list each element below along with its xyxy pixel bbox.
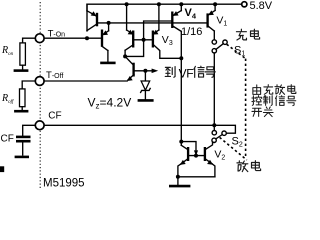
5.8V terminal (242, 2, 247, 7)
由 (253, 85, 261, 94)
ground (zener) (138, 99, 154, 102)
label control text block 由充放电 / 控制信号 / 开关 (253, 85, 261, 94)
开 (252, 108, 262, 116)
ground (bottom) (177, 177, 179, 185)
svg-text:M51995: M51995 (43, 178, 85, 190)
transistor V4 (1/16 PNP) (172, 4, 181, 141)
ground (Roff) (14, 110, 28, 113)
svg-text:VF: VF (179, 67, 194, 81)
电 (252, 161, 261, 171)
wire Qe base to arrow (134, 70, 153, 72)
充 (236, 29, 246, 40)
ground (CF cap) (15, 156, 29, 159)
svg-text:1/16: 1/16 (181, 26, 202, 38)
transistor Qc (mirror PNP left) (125, 4, 134, 56)
wire mirror base line (133, 39, 153, 41)
放 (275, 85, 285, 95)
zener diode Vz (141, 71, 151, 99)
wire common base line (Qa base to V1 base) (97, 22, 208, 24)
信 (194, 66, 204, 77)
号 (287, 96, 296, 105)
transistor Qb (PNP, base to T-On) (102, 23, 109, 62)
transistor V2 (discharge NPN) (205, 142, 215, 176)
svg-text:CF: CF (48, 111, 61, 122)
电 (251, 29, 260, 39)
wire S1 to CF node (213, 53, 215, 125)
wire mirror base line bottom (188, 155, 205, 157)
pin T-On (35, 34, 44, 43)
IC boundary dashed line (39, 2, 41, 189)
transistor Qf (diode-connected NPN) (178, 142, 188, 177)
pin T-Off (35, 77, 44, 86)
node Qe collector node dot (123, 54, 127, 58)
node T-On junction (85, 36, 89, 40)
node rail junction dots (125, 2, 129, 6)
node base-line dot (107, 21, 111, 25)
充 (264, 85, 273, 95)
transistor V1 (charge PNP) (208, 4, 216, 40)
关 (263, 107, 273, 117)
capacitor CF external (16, 125, 35, 155)
制 (263, 96, 272, 106)
ground (Qb collector) (100, 62, 115, 65)
label 到VF信号 (to VF signal) (165, 67, 175, 78)
wire T-Off line (44, 80, 127, 82)
node mirror base dot (142, 38, 146, 42)
到 (165, 67, 175, 78)
decorative margin mark (0, 166, 4, 172)
transistor Qe (NPN, emitter to T-Off) (125, 56, 134, 81)
wire bottom emitter rail (178, 176, 215, 178)
放 (237, 161, 248, 172)
wire CF line to S2 hook (44, 125, 235, 133)
label 放电 (discharge) (237, 161, 248, 172)
node V3/V4 collector junction (179, 56, 183, 60)
control dashed line from S1 (227, 44, 246, 58)
号 (205, 67, 215, 78)
wire collector-base tie with arrow (181, 142, 196, 154)
label 充电 (charge) (236, 29, 246, 40)
svg-text:Vz=4.2V: Vz=4.2V (88, 95, 132, 110)
电 (288, 85, 296, 94)
pin CF (35, 121, 44, 130)
svg-text:5.8V: 5.8V (250, 0, 273, 12)
switch S2 (closed to CF hook, discharge) (212, 131, 226, 143)
wire V4 base line + tie down to mirror bases and Qe collector node (125, 21, 172, 56)
switch S1 (open, charge) (212, 40, 227, 53)
node CF/S-column junction (212, 123, 216, 127)
transistor Qa (top-left PNP, emitter to rail) (87, 4, 97, 30)
wire top supply rail (87, 4, 241, 31)
node Qf tie junction (179, 140, 183, 144)
control dashed line from S2 (220, 137, 247, 160)
resistor Ron (20, 38, 35, 69)
transistor V3 (mirror PNP right) (153, 4, 182, 58)
resistor Roff (20, 81, 36, 109)
wire T-On line (44, 37, 102, 39)
控 (252, 96, 262, 106)
svg-text:CF: CF (1, 134, 14, 145)
ground (Ron) (14, 69, 29, 72)
信 (275, 96, 284, 106)
